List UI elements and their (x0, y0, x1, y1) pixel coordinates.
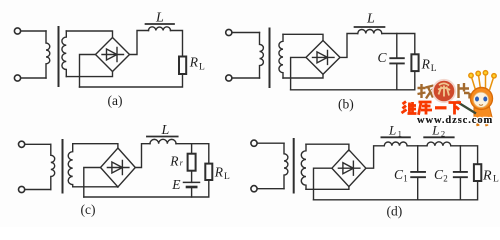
wire primary top (d) (257, 142, 284, 144)
svg-text:(d): (d) (387, 204, 403, 219)
svg-text:L: L (366, 12, 375, 27)
wire L1 to L2 (d) (407, 145, 427, 147)
watermark mascot body (474, 107, 492, 120)
diode symbol inside bridge (a) (102, 48, 124, 62)
terminal (d) top (251, 140, 257, 146)
wire secondary top to bridge (d) (306, 144, 349, 151)
wire to Rr (c) (191, 144, 193, 154)
wire secondary bottom to bridge (c) (73, 186, 118, 188)
wire bridge right to inductor (b) (340, 34, 358, 58)
capacitor C2 lead top (d) (459, 146, 461, 172)
inductor core bar (b) (355, 26, 385, 28)
wire inductor to load (b) (382, 34, 415, 55)
inductor core bar (a) (146, 23, 175, 25)
wire primary top (a) (21, 30, 46, 32)
capacitor C plates (b) (390, 58, 404, 63)
inductor L1 core bar (d) (381, 136, 410, 138)
terminal (b) bottom (226, 75, 232, 81)
transformer secondary winding (d) (301, 144, 306, 189)
wire primary bottom (d) (257, 188, 284, 190)
bottom rail (d) (314, 181, 478, 200)
svg-text:r: r (180, 158, 184, 168)
battery E plate long (c) (184, 181, 200, 183)
bottom rail (b) (291, 71, 415, 90)
watermark mascot mouth (479, 104, 483, 107)
svg-text:L: L (431, 64, 437, 74)
watermark chip logo hand strokes (438, 83, 450, 96)
transformer core (c) (62, 140, 64, 193)
svg-text:2: 2 (443, 173, 448, 183)
inductor L2 core bar (d) (424, 136, 454, 138)
terminal (d) bottom (251, 186, 257, 192)
diode symbol inside bridge (d) (338, 161, 360, 175)
wire bridge right to inductor (a) (130, 31, 149, 55)
wire bridge left to bottom rail (c) (84, 168, 101, 198)
transformer secondary winding (c) (68, 144, 73, 187)
resistor RL (a) (179, 57, 186, 75)
watermark mascot pen (457, 102, 477, 114)
svg-text:R: R (189, 54, 199, 69)
svg-text:R: R (421, 56, 431, 71)
svg-text:(b): (b) (338, 97, 354, 112)
wire bridge right to inductor (c) (135, 144, 150, 168)
terminal (a) bottom (14, 75, 20, 81)
wire bridge left to bottom rail (d) (314, 168, 332, 200)
capacitor C lead top (b) (396, 34, 398, 59)
wire inductor to load (a) (171, 31, 183, 57)
terminal (b) top (226, 29, 232, 35)
bottom rail (c) (84, 180, 209, 197)
watermark mascot antennae (469, 71, 496, 90)
inductor L (a) (149, 27, 171, 31)
svg-text:L: L (161, 123, 170, 138)
transformer secondary winding (b) (279, 34, 283, 78)
wire bridge left to bottom rail (b) (291, 57, 306, 89)
bridge rectifier D1 (a) (96, 38, 130, 72)
wire bridge left to bottom rail (a) (80, 55, 96, 88)
svg-text:L: L (224, 172, 230, 182)
svg-text:(c): (c) (81, 202, 96, 217)
transformer core (b) (269, 29, 271, 88)
bottom rail (a) (80, 74, 183, 87)
wire inductor to load (c) (176, 144, 209, 164)
svg-text:1: 1 (398, 129, 402, 139)
capacitor C1 plates (d) (411, 172, 425, 177)
diode symbol inside bridge (b) (313, 50, 335, 64)
svg-text:R: R (214, 165, 224, 180)
resistor Rr (c) (188, 154, 196, 171)
inductor core bar (c) (147, 136, 178, 138)
inductor L (b) (358, 30, 382, 34)
transformer primary winding (c) (51, 144, 55, 189)
wire Rr to battery (c) (191, 171, 193, 183)
watermark mascot head (471, 88, 493, 110)
wire primary top (c) (25, 143, 51, 145)
diode symbol inside bridge (c) (107, 161, 128, 175)
terminal (c) bottom (19, 186, 25, 192)
wire secondary top to bridge (c) (73, 144, 118, 148)
svg-text:C: C (378, 50, 388, 65)
svg-text:E: E (171, 177, 181, 192)
inductor L2 (d) (427, 142, 451, 146)
capacitor C2 plates (d) (454, 172, 467, 177)
wire secondary bottom to bridge (d) (306, 187, 349, 190)
watermark mascot feet (477, 119, 487, 126)
capacitor C1 lead top (d) (417, 146, 419, 172)
watermark char zhao (找) (418, 84, 434, 99)
terminal (a) top (14, 28, 20, 34)
battery E plate short (c) (187, 186, 196, 189)
inductor L1 (d) (384, 142, 407, 146)
bridge rectifier D2 (b) (306, 41, 340, 75)
transformer primary winding (b) (260, 33, 264, 79)
wire secondary top to bridge (a) (66, 31, 112, 38)
wire battery to rail (c) (191, 187, 193, 197)
watermark mascot eyes (475, 97, 479, 102)
transformer primary winding (a) (46, 31, 50, 78)
wire secondary bottom to bridge (a) (66, 72, 112, 77)
svg-text:L: L (493, 175, 499, 185)
svg-text:L: L (199, 62, 205, 72)
terminal (c) top (19, 141, 25, 147)
capacitor C lead bottom (b) (396, 63, 398, 89)
svg-text:2: 2 (441, 128, 445, 138)
wire bridge right to inductor L1 (d) (366, 146, 384, 168)
bridge rectifier D4 (d) (332, 150, 366, 187)
resistor RL (d) (474, 164, 481, 181)
watermark char pian (片) (459, 83, 470, 99)
transformer core (d) (293, 139, 295, 193)
wire primary bottom (c) (25, 189, 51, 191)
svg-text:www.dzsc.com: www.dzsc.com (417, 115, 493, 126)
capacitor C1 lead bottom (d) (417, 177, 419, 200)
svg-text:L: L (388, 123, 396, 138)
watermark mascot face (473, 92, 488, 107)
watermark chip logo ring (433, 80, 455, 102)
transformer primary winding (d) (284, 143, 288, 189)
inductor L (c) (150, 139, 176, 143)
wire primary bottom (b) (232, 77, 259, 79)
resistor RL (b) (411, 54, 418, 71)
wire secondary top to bridge (b) (283, 34, 323, 40)
svg-text:1: 1 (403, 173, 408, 183)
wire secondary bottom to bridge (b) (283, 74, 323, 78)
resistor RL (c) (205, 164, 212, 180)
svg-text:L: L (155, 11, 164, 26)
svg-text:R: R (482, 168, 492, 183)
svg-text:R: R (169, 153, 179, 168)
transformer core (a) (58, 27, 60, 86)
wire L2 to load (d) (451, 146, 478, 164)
capacitor C2 lead bottom (d) (459, 177, 461, 200)
transformer secondary winding (a) (62, 31, 66, 77)
wire primary bottom (a) (21, 77, 46, 79)
bridge rectifier D3 (c) (101, 148, 136, 187)
watermark text weikuyixia (维库一下) (402, 102, 462, 115)
wire primary top (b) (232, 32, 259, 34)
svg-text:(a): (a) (108, 93, 123, 108)
